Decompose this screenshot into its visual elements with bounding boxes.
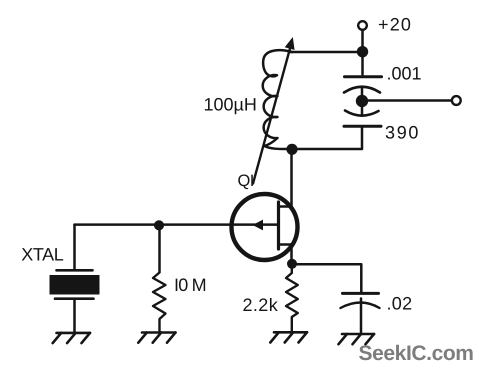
node D (source node) bbox=[287, 259, 297, 269]
node C (output tap) bbox=[356, 95, 368, 107]
transistor Q1 drain lead bbox=[279, 205, 292, 208]
transistor Q1 gate arrowhead bbox=[253, 220, 264, 231]
capacitor C3 390 flat plate bbox=[344, 125, 381, 128]
ground under crystal bbox=[53, 333, 90, 343]
svg-text:100µH: 100µH bbox=[204, 95, 257, 115]
svg-text:390: 390 bbox=[385, 123, 420, 143]
node B (coil bottom / drain node) bbox=[286, 144, 297, 155]
crystal Y1 bottom plate bbox=[55, 297, 94, 300]
svg-text:2.2k: 2.2k bbox=[243, 295, 279, 315]
crystal Y1 body bbox=[50, 275, 100, 295]
stub and lead .02 to ground bbox=[360, 299, 363, 334]
wire node E down to 10M bbox=[158, 227, 161, 272]
svg-text:SeekIC.com: SeekIC.com bbox=[359, 342, 474, 365]
transistor Q1 channel bar bbox=[277, 202, 280, 249]
wire node C to output terminal bbox=[362, 99, 451, 102]
svg-text:.02: .02 bbox=[387, 293, 413, 313]
svg-text:.001: .001 bbox=[387, 64, 422, 84]
capacitor C2 .001 (flat plate) bbox=[345, 75, 382, 78]
ground under 10M bbox=[138, 333, 175, 343]
capacitor C4 .02 flat plate bbox=[343, 292, 379, 295]
inductor L1 100uH (variable, 4 loops) bbox=[263, 50, 292, 149]
svg-text:I0 M: I0 M bbox=[174, 275, 206, 295]
ground under 2.2k bbox=[270, 332, 307, 342]
svg-text:QI: QI bbox=[238, 172, 254, 190]
terminal +20 bbox=[358, 21, 367, 30]
ground under .02 bbox=[339, 334, 375, 344]
stub node C to arc bbox=[361, 101, 364, 115]
arrow of variable inductor bbox=[253, 49, 290, 184]
wire gate (crystal to transistor) bbox=[75, 223, 278, 226]
node E (gate / 10M junction) bbox=[154, 220, 164, 230]
wire crystal top to gate line bbox=[73, 225, 76, 270]
svg-text:XTAL: XTAL bbox=[21, 245, 63, 265]
output terminal bbox=[452, 96, 461, 105]
resistor R1 10M bbox=[153, 273, 166, 333]
resistor R2 2.2k bbox=[286, 266, 298, 332]
wire +20 down to node A bbox=[361, 31, 364, 49]
wire node B to 390 bottom bbox=[292, 128, 362, 150]
transistor Q1 circle bbox=[232, 194, 298, 260]
capacitor C4 curved plate bbox=[341, 303, 380, 309]
capacitor C3 390 curved plate bbox=[345, 111, 379, 116]
crystal bottom lead bbox=[73, 299, 76, 333]
capacitor C2 curved plate bbox=[344, 87, 380, 93]
wire node D to .02 cap bbox=[292, 264, 361, 291]
crystal Y1 top plate bbox=[57, 269, 93, 272]
wire node A to coil top bbox=[290, 51, 363, 54]
stub arc to node C bbox=[361, 87, 364, 101]
node A (junction at +20) bbox=[357, 46, 368, 57]
wire source down to node D bbox=[290, 245, 293, 263]
wire node A down to C2 bbox=[361, 55, 364, 75]
transistor Q1 source lead bbox=[279, 243, 292, 246]
svg-text:+20: +20 bbox=[378, 14, 412, 34]
wire node B down to drain bbox=[290, 149, 293, 207]
